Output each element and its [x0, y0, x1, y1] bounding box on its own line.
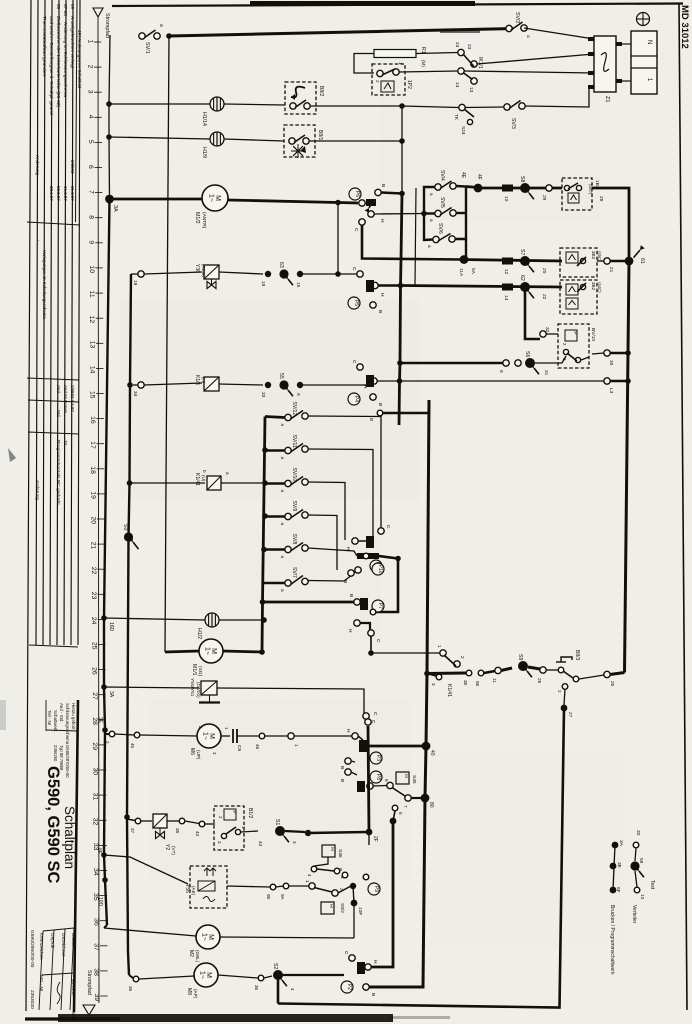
svg-text:27: 27 [91, 692, 98, 700]
wire branch SV/12 [265, 417, 285, 418]
wire M1/2 to P6 [228, 200, 358, 203]
contact 46 [259, 733, 265, 739]
svg-text:(REG): (REG) [201, 264, 206, 277]
svg-text:32: 32 [92, 818, 99, 826]
svg-text:4: 4 [307, 874, 312, 877]
revision table outer left border [26, 0, 31, 1011]
svg-text:10: 10 [503, 196, 509, 202]
svg-text:B: B [339, 766, 345, 769]
connector contact pair row 4F [502, 185, 513, 192]
wire bus B [127, 274, 131, 975]
switch SV/1 [139, 33, 145, 39]
relay coil K1/1 [204, 377, 219, 391]
junction bus A / lamp H1/9 row [106, 134, 112, 140]
contact 25 [604, 671, 610, 677]
svg-text:26: 26 [91, 667, 98, 675]
pressure switch P8 [370, 771, 382, 783]
P4 contact H [371, 378, 377, 384]
wire bus A upper (thin) [109, 35, 110, 199]
contact 32 [540, 331, 546, 337]
pressure switch P3 [370, 752, 382, 764]
P3 contact B [345, 758, 351, 764]
B8/2 contacts [290, 103, 296, 109]
B1/2 inner P box [224, 809, 236, 820]
wire contact 14 to Z1 pin3 [464, 71, 594, 73]
switch SV/2 [506, 25, 512, 31]
svg-text:SV/11: SV/11 [291, 435, 297, 448]
svg-text:P8: P8 [375, 774, 381, 780]
softener Y56 dashed box [190, 866, 227, 908]
svg-text:(H): (H) [201, 377, 206, 384]
svg-text:Strompfad: Strompfad [104, 13, 110, 38]
svg-text:SV/4: SV/4 [439, 170, 445, 181]
svg-text:45: 45 [130, 743, 135, 749]
junction P10 bar to down wire [395, 556, 401, 562]
1P2 inner symbol box [381, 81, 394, 92]
svg-text:18: 18 [260, 281, 266, 287]
wire row 4F to 1B2 [478, 187, 562, 190]
svg-text:34: 34 [92, 868, 99, 876]
wire K1/1 to 55 [219, 384, 263, 385]
wire P7 C row to K1/41 contact 1 [371, 652, 440, 654]
svg-text:30: 30 [635, 830, 641, 836]
svg-text:23: 23 [466, 44, 472, 50]
S46 contact 3 [334, 868, 340, 874]
wire 1P2 pin1 right [399, 71, 458, 72]
wire S2 down to bottom run [277, 975, 280, 1004]
P7 contact B [354, 599, 360, 605]
svg-text:P7: P7 [377, 603, 383, 609]
contact 30 [604, 350, 610, 356]
wire 30 to right trunk [610, 352, 628, 355]
svg-text:S9: S9 [517, 654, 523, 660]
Strompfad ruler triangle bottom [83, 1005, 95, 1015]
P4 contact C [357, 364, 363, 370]
svg-text:3E: 3E [616, 862, 622, 868]
svg-text:TK: TK [453, 114, 459, 121]
svg-text:36: 36 [128, 986, 133, 992]
P7 contact H [354, 620, 360, 626]
relay coil K1/41 [207, 476, 221, 490]
svg-text:26: 26 [536, 678, 542, 684]
S45 contact 6 [387, 782, 393, 788]
svg-text:MD 31012: MD 31012 [679, 5, 690, 49]
svg-text:27: 27 [567, 712, 573, 718]
svg-text:C: C [372, 712, 378, 716]
capacitor C6 [232, 729, 234, 743]
svg-text:MG - Nr: MG - Nr [39, 975, 44, 992]
svg-text:R1: R1 [420, 47, 426, 54]
signature scribble [57, 982, 60, 1004]
pressure switch P11 [370, 560, 382, 572]
junction SV bus / SV8 [261, 547, 267, 553]
lamp H1/2 [205, 613, 219, 627]
svg-text:8: 8 [87, 215, 94, 219]
junction 80 [421, 794, 430, 803]
wire main center trunk [368, 400, 429, 987]
B1/2 contact 3 [221, 833, 226, 838]
P8 contact B [345, 769, 351, 775]
svg-text:6: 6 [384, 779, 389, 782]
svg-text:13: 13 [88, 341, 95, 349]
program module 1B2 dashed box [562, 178, 592, 210]
microswitch S46 box [322, 845, 335, 857]
svg-text:P: P [572, 331, 578, 334]
svg-text:1: 1 [436, 645, 442, 648]
svg-text:(ANTR): (ANTR) [201, 212, 207, 229]
svg-text:C: C [351, 360, 357, 364]
svg-text:61: 61 [639, 258, 645, 264]
wire trunk top to P10 B region [383, 400, 429, 413]
contact 35 [258, 975, 264, 981]
junction row19 / vertical from M1/2 [335, 271, 341, 277]
connector dot 18 [265, 271, 271, 277]
pressure switch P6 cluster [359, 200, 365, 206]
svg-text:Gezeichnet: Gezeichnet [61, 933, 66, 957]
wire P7 H stub [360, 623, 370, 630]
junction node a on top trunk [166, 33, 172, 39]
svg-text:L3: L3 [608, 388, 614, 394]
microswitch S45 box [396, 772, 409, 784]
pressure switch P7 [372, 600, 384, 612]
pressure switch P10 cluster [357, 553, 379, 559]
svg-text:Y50/Y51: Y50/Y51 [189, 678, 195, 697]
svg-text:3: 3 [87, 90, 94, 94]
svg-text:Gepruft: Gepruft [50, 933, 55, 949]
thin vertical wire x=415 (SV/4 branch to row 44C) [415, 188, 416, 286]
svg-text:K1/1: K1/1 [194, 375, 200, 386]
wire K1/41 3 to contacts [427, 672, 466, 676]
program switch B8/3 [558, 667, 564, 673]
wire right trunk [625, 261, 630, 673]
P11 contact C [378, 528, 384, 534]
svg-text:9: 9 [88, 240, 95, 244]
svg-text:Anderung: Anderung [35, 155, 40, 175]
svg-text:B: B [348, 594, 354, 597]
contact 2 M6 row [109, 731, 115, 737]
svg-text:B: B [339, 779, 345, 782]
Z1 pin stubs left [588, 37, 594, 41]
motor M2 [196, 925, 220, 949]
motor M1/2 [202, 185, 228, 211]
svg-text:P6: P6 [354, 191, 360, 197]
svg-text:36: 36 [92, 918, 99, 926]
wire SV left bus [424, 214, 433, 241]
contact 21 [604, 258, 610, 264]
svg-text:10: 10 [63, 440, 68, 446]
changeover contact IK1/1 pins 24/23/13/14 [458, 49, 464, 55]
junction 2F [366, 829, 373, 836]
svg-text:H: H [379, 293, 385, 297]
junction bus A / valve Y50 row [101, 684, 107, 690]
thermostat 3B2 44C dashed box [560, 280, 597, 314]
svg-text:2: 2 [459, 656, 465, 659]
svg-text:M1/1: M1/1 [191, 664, 197, 676]
svg-text:30: 30 [91, 768, 98, 776]
junction bus A node 10D [102, 877, 108, 883]
svg-text:13: 13 [468, 87, 474, 93]
svg-text:30.1.87: 30.1.87 [49, 186, 54, 201]
svg-text:38: 38 [93, 968, 100, 976]
svg-text:(GBL): (GBL) [195, 950, 200, 963]
svg-text:P: P [231, 810, 237, 813]
svg-text:5: 5 [398, 812, 403, 815]
svg-text:Blatt: Blatt [71, 1012, 76, 1021]
svg-text:a: a [429, 219, 434, 222]
svg-text:B: B [370, 993, 376, 996]
svg-text:Y56: Y56 [184, 884, 190, 893]
svg-text:5A: 5A [470, 268, 476, 275]
wire bus B to K1/41 coil [130, 482, 206, 484]
P7 contact C [368, 630, 374, 636]
svg-text:23: 23 [90, 592, 97, 600]
svg-text:55: 55 [278, 373, 284, 379]
wire SV/3 to Z1 pin4 [525, 87, 589, 107]
junction bus A / motor M1/2 row, node 3A [105, 195, 114, 204]
svg-text:(AE): (AE) [191, 886, 196, 896]
junction 4F [474, 184, 483, 193]
svg-text:H: H [329, 847, 335, 851]
svg-text:4E: 4E [460, 172, 466, 179]
svg-text:Y38: Y38 [194, 264, 200, 273]
svg-text:14: 14 [89, 366, 96, 374]
switch SV/12 [285, 414, 291, 420]
svg-text:15: 15 [89, 391, 96, 399]
svg-text:24: 24 [90, 617, 97, 625]
wire Y38 to 63 [219, 272, 263, 274]
P10 contact B [355, 567, 361, 573]
svg-text:30: 30 [608, 360, 614, 366]
svg-text:M1~: M1~ [199, 971, 213, 979]
svg-text:B: B [369, 418, 374, 421]
svg-text:2/3593: 2/3593 [70, 160, 75, 174]
svg-text:63: 63 [278, 262, 284, 268]
wire bus A lower (thick) [104, 199, 110, 925]
P4 contact B [370, 394, 376, 400]
wire B8/1 to vertical node [309, 140, 402, 142]
wire vertical node B8 rows down to B [401, 106, 403, 194]
connector 27 [561, 705, 568, 712]
resistor R1 [374, 50, 416, 58]
wire M1/1 to SV bus [223, 651, 262, 652]
svg-text:2: 2 [557, 690, 562, 693]
wire to contact TK [402, 106, 459, 108]
scan smudge top trunk [440, 30, 480, 33]
S9/2 contact 2 [332, 890, 338, 896]
title block heavy bottom edge [25, 1017, 120, 1020]
svg-text:S24: S24 [460, 126, 466, 135]
connector dot 33 [265, 382, 271, 388]
svg-text:11: 11 [88, 291, 95, 298]
svg-text:Schaltplan: Schaltplan [62, 806, 77, 869]
wire bus to SV/8 [265, 548, 285, 550]
svg-text:4F: 4F [476, 174, 482, 180]
contact C above 2F [365, 719, 371, 725]
timer switch B8/1 dashed box [284, 125, 315, 157]
switch SV/3 [504, 104, 510, 110]
svg-text:a: a [525, 35, 530, 38]
svg-text:C: C [385, 525, 391, 529]
svg-text:Brucken / Programmschaltwerk: Brucken / Programmschaltwerk [609, 905, 615, 975]
pressure switch P4 [348, 393, 360, 405]
wire Z1 to 1 [622, 80, 631, 82]
svg-text:B: B [377, 403, 383, 406]
svg-text:1: 1 [293, 744, 299, 747]
svg-text:Thermostataufbau geandert: Thermostataufbau geandert [41, 16, 47, 77]
svg-text:Std: Std [56, 410, 61, 417]
svg-text:3B2: 3B2 [591, 282, 596, 291]
wire 25 to right trunk corner [610, 673, 625, 675]
svg-text:16.01.87: 16.01.87 [71, 979, 76, 997]
lamp H1/9 [210, 132, 224, 146]
scan-edge dark band at bottom [58, 1014, 393, 1022]
contact 9E [270, 884, 276, 890]
Y56 inner rect [198, 881, 215, 891]
svg-text:20: 20 [90, 516, 97, 524]
contact 19 [138, 271, 144, 277]
contact 44 [199, 821, 205, 827]
wire SV/4 left stub [424, 187, 435, 214]
title block right heavy edge [74, 700, 78, 1012]
svg-text:Verteiler: Verteiler [631, 905, 637, 924]
junction 11A [460, 255, 469, 264]
junction right trunk / BV10 row [625, 350, 631, 356]
svg-text:a: a [280, 556, 285, 559]
distributor S62 [520, 282, 530, 292]
svg-text:35: 35 [254, 985, 259, 991]
svg-text:25: 25 [609, 681, 615, 687]
wire bus A to lamp H1/9 [109, 137, 210, 139]
svg-text:3E: 3E [97, 717, 103, 724]
junction right trunk / L3 row [625, 378, 631, 384]
wire bus A 8F to Y56 [104, 855, 188, 884]
svg-text:3: 3 [292, 841, 297, 844]
thermostat 3B2 45C dashed box [560, 248, 597, 277]
svg-text:SV/10: SV/10 [291, 468, 297, 482]
svg-text:2353030: 2353030 [29, 990, 35, 1009]
svg-text:2F: 2F [372, 836, 378, 842]
wire S45 to junction 80 [411, 797, 425, 799]
wire P7 C down [370, 636, 372, 653]
Strompfad ruler ticks and numbers [94, 42, 108, 996]
svg-text:M1~: M1~ [201, 933, 215, 941]
3B2 45C inner relay box [566, 252, 578, 263]
wire L3 to right trunk [610, 380, 628, 383]
P11 contact B [348, 570, 354, 576]
connector dot 9 [297, 382, 303, 388]
svg-text:2: 2 [86, 65, 93, 69]
distributor S9 [518, 661, 528, 671]
svg-text:19: 19 [89, 491, 96, 499]
P2 contact C [349, 955, 355, 961]
lamp H1/14 [210, 97, 224, 111]
revision table row line 1 [36, 0, 38, 645]
svg-text:Datum: Datum [71, 933, 76, 947]
svg-text:15: 15 [295, 282, 301, 288]
svg-text:Programmkontakt PC gedreht: Programmkontakt PC gedreht [55, 440, 61, 505]
wire down to P2 H [371, 821, 393, 967]
junction right trunk / row 45C [625, 257, 634, 266]
svg-text:58: 58 [638, 858, 644, 864]
P9 contact B [342, 872, 348, 878]
title block top separator [46, 730, 78, 731]
valve coil Y38 [204, 265, 219, 279]
junction Y56 row right [350, 883, 356, 889]
switch SV/5 [435, 210, 441, 216]
svg-text:H1/14: H1/14 [201, 112, 207, 126]
svg-text:29: 29 [541, 195, 547, 201]
svg-text:P3: P3 [375, 755, 381, 761]
svg-text:S0: S0 [122, 524, 128, 530]
junction B8/1 row / vertical [399, 138, 405, 144]
contact 13 [471, 78, 477, 84]
P8 right contact [367, 783, 373, 789]
wire P5 H to trunk [378, 284, 401, 287]
svg-text:07-08: 07-08 [63, 4, 68, 16]
wire 19 to Y38 [144, 272, 202, 274]
svg-text:34: 34 [132, 391, 138, 397]
wire lamp H1/2 to SV bus [219, 619, 264, 621]
contact 26 [540, 667, 546, 673]
svg-text:18: 18 [89, 466, 96, 474]
junction SV bus / K1/41 row / SV10 [262, 480, 268, 486]
P2 contact H [365, 964, 371, 970]
distributor S6 [525, 358, 535, 368]
junction SV bus / SV11 [262, 447, 268, 453]
svg-text:G590/2870/00-00: G590/2870/00-00 [65, 745, 70, 778]
P5 contact H [372, 282, 378, 288]
svg-text:2/3593 9.4.87: 2/3593 9.4.87 [70, 385, 75, 412]
terminal block N / 1 [631, 31, 657, 94]
wire S6 row from trunk [400, 362, 503, 365]
1P2 pin 2 [377, 70, 383, 76]
svg-text:M8: M8 [186, 988, 192, 995]
contact L3 [604, 378, 610, 384]
junction bus B / Y2 row [124, 814, 130, 820]
svg-text:C: C [375, 639, 381, 643]
wire S46 box to contact [314, 857, 328, 866]
pressure switch BV/10 dashed box [558, 324, 589, 368]
svg-text:SV/9: SV/9 [291, 501, 297, 512]
wire row 11A to 3B2 45C [461, 260, 562, 262]
wire L3 row [400, 380, 605, 382]
contact 37 [135, 818, 141, 824]
Strompfad ruler line [98, 17, 99, 1003]
svg-text:Anderung im Schliessungsschema: Anderung im Schliessungsschema [62, 22, 68, 97]
wire P10 down to P7 right [376, 559, 398, 613]
wire 34 to K1/1 [144, 383, 202, 385]
revision table row line 6 [71, 0, 73, 645]
contact 9A [283, 883, 289, 889]
wire bus A corner to motor M2 [104, 928, 196, 936]
svg-text:11A: 11A [458, 268, 464, 277]
svg-text:b: b [202, 470, 207, 473]
pressure switch P9 [368, 883, 380, 895]
svg-text:M1~: M1~ [208, 194, 222, 202]
svg-text:11: 11 [491, 678, 497, 683]
wire P6 H to SV/5 bus [374, 213, 424, 216]
junction SV left bus / P6 H [421, 211, 427, 217]
svg-text:P2: P2 [346, 984, 352, 990]
svg-text:a: a [280, 490, 285, 493]
svg-text:a: a [280, 589, 285, 592]
svg-text:28: 28 [598, 196, 604, 202]
svg-text:7: 7 [87, 190, 94, 194]
P5 contact C [357, 271, 363, 277]
arrow marker 61 [634, 250, 640, 258]
wire bus to SV/11 [265, 449, 285, 451]
wire 63 to node [300, 273, 338, 275]
